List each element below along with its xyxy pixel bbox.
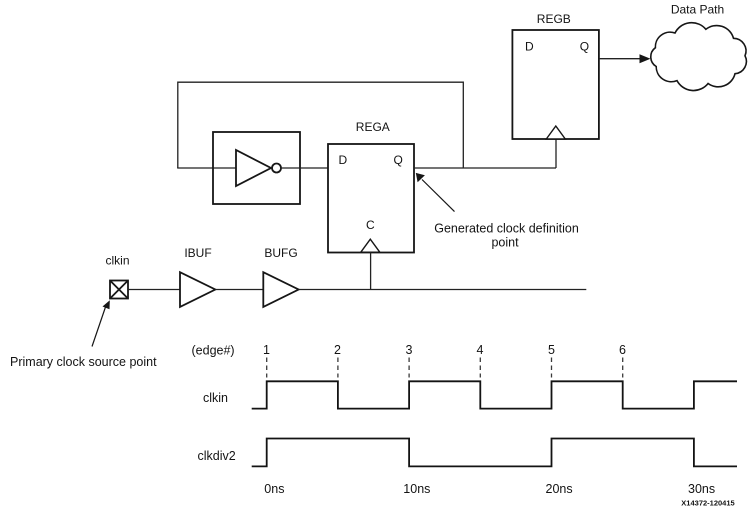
svg-text:Generated clock definition: Generated clock definition <box>434 222 579 236</box>
svg-text:1: 1 <box>263 343 270 357</box>
svg-text:IBUF: IBUF <box>184 246 211 260</box>
svg-text:10ns: 10ns <box>403 482 430 496</box>
wire REGB clock drop <box>555 139 557 168</box>
wire inverter input <box>177 167 236 169</box>
edge dashed lines <box>267 358 623 378</box>
svg-text:clkdiv2: clkdiv2 <box>198 449 236 463</box>
svg-text:clkin: clkin <box>105 254 129 268</box>
annotation arrow primary clock source <box>92 300 110 346</box>
arrowhead to cloud <box>640 54 651 63</box>
svg-text:clkin: clkin <box>203 391 228 405</box>
svg-text:6: 6 <box>619 343 626 357</box>
wire port to IBUF <box>128 289 180 291</box>
buffer IBUF triangle <box>180 272 215 307</box>
waveform clkin <box>252 381 737 408</box>
svg-text:Data Path: Data Path <box>671 3 724 17</box>
svg-text:30ns: 30ns <box>688 482 715 496</box>
svg-text:Q: Q <box>580 40 589 54</box>
flip-flop REGB box <box>512 30 599 139</box>
wire IBUF to BUFG <box>215 289 263 291</box>
inverter U1 triangle <box>236 150 271 186</box>
flip-flop REGA box <box>328 144 414 253</box>
svg-text:REGB: REGB <box>537 12 571 26</box>
wire feedback top <box>178 82 464 168</box>
REGB clock triangle <box>546 126 565 139</box>
wire REGA clock drop <box>370 252 372 289</box>
REGA clock triangle <box>361 239 380 252</box>
wire REGB Q to cloud <box>599 58 641 60</box>
edge 2 dashed marker <box>337 358 339 378</box>
svg-text:BUFG: BUFG <box>264 246 297 260</box>
svg-text:(edge#): (edge#) <box>192 344 235 358</box>
svg-text:D: D <box>339 153 348 167</box>
edge 5 dashed marker <box>551 358 553 378</box>
edge 3 dashed marker <box>408 358 410 378</box>
svg-text:point: point <box>491 236 519 250</box>
wire main clock line <box>299 289 587 291</box>
annotation arrow generated clock definition <box>416 173 455 212</box>
inverter U1 box <box>213 132 300 204</box>
svg-text:5: 5 <box>548 343 555 357</box>
svg-text:2: 2 <box>334 343 341 357</box>
svg-text:X14372-120415: X14372-120415 <box>681 499 734 508</box>
svg-text:C: C <box>366 218 375 232</box>
svg-text:0ns: 0ns <box>264 482 284 496</box>
input port clkin crossed box <box>110 281 128 299</box>
svg-text:3: 3 <box>406 343 413 357</box>
wire inverter output to REGA D <box>281 167 328 169</box>
wire REGA Q output <box>414 167 556 169</box>
edge numbers 1-6 <box>263 343 626 357</box>
svg-text:REGA: REGA <box>356 120 390 134</box>
cloud Data Path <box>651 23 747 91</box>
svg-text:Primary clock source point: Primary clock source point <box>10 355 157 369</box>
edge 4 dashed marker <box>479 358 481 378</box>
svg-text:4: 4 <box>477 343 484 357</box>
buffer BUFG triangle <box>263 272 298 307</box>
waveform clkdiv2 <box>252 439 737 467</box>
svg-text:Q: Q <box>394 153 403 167</box>
edge 1 dashed marker <box>266 358 268 378</box>
inverter U1 bubble <box>272 164 281 173</box>
edge 6 dashed marker <box>622 358 624 378</box>
svg-text:D: D <box>525 40 534 54</box>
svg-text:20ns: 20ns <box>546 482 573 496</box>
